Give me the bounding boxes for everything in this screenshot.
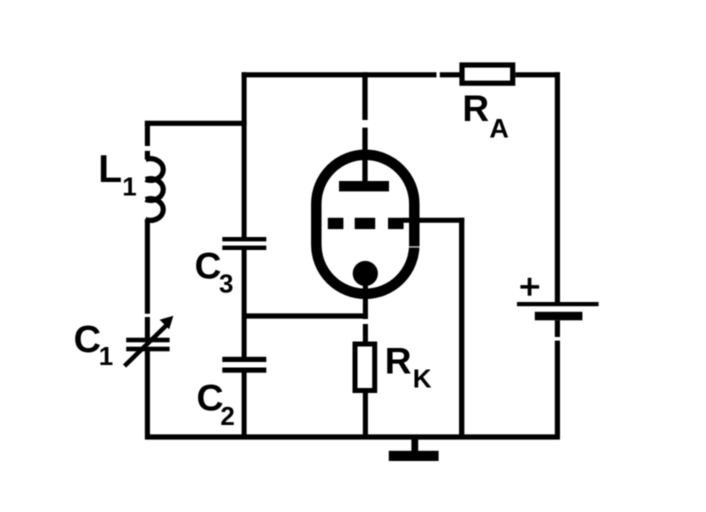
svg-text:1: 1	[99, 341, 113, 371]
wire left horizontal L1-top to middle vertical	[145, 121, 247, 126]
svg-text:A: A	[489, 113, 509, 143]
wire top bus short segment before RA	[440, 72, 461, 77]
tube plate lead upper	[362, 72, 367, 120]
tube cathode lead	[363, 280, 368, 319]
wire battery to bottom (lower piece)	[555, 341, 560, 440]
svg-text:R: R	[462, 88, 489, 129]
label RK	[385, 341, 432, 394]
resistor RK body	[355, 344, 375, 391]
capacitor C1 top plate	[126, 338, 169, 343]
svg-text:1: 1	[122, 172, 136, 202]
wire right vertical to battery	[555, 72, 560, 303]
tube anode plate bar	[339, 181, 389, 191]
wire L1 bottom to C1 (upper piece)	[145, 219, 150, 314]
label C1	[74, 319, 114, 371]
capacitor C2 top plate	[222, 357, 266, 362]
tube U1 envelope	[316, 155, 414, 294]
wire bottom bus (ground net)	[145, 434, 560, 439]
wire C1 to bottom bus	[145, 351, 150, 439]
wire RA to right corner	[515, 72, 560, 77]
ground bar	[389, 451, 439, 461]
wire top bus left segment (node plate/top)	[242, 72, 437, 77]
svg-text:R: R	[385, 341, 412, 382]
wire cathode gap piece to RK	[363, 324, 368, 343]
label C2	[197, 377, 235, 431]
wire grid horizontal	[403, 218, 464, 223]
battery short plate (-)	[535, 312, 583, 321]
wire middle vertical lower (C2 to bottom bus)	[242, 372, 247, 439]
tube grid dash 2	[355, 218, 376, 229]
svg-text:3: 3	[219, 269, 233, 299]
capacitor C2 bottom plate	[222, 368, 266, 373]
tube cathode dot	[353, 261, 378, 286]
wire battery to bottom (upper piece)	[555, 320, 560, 337]
svg-text:C: C	[195, 246, 222, 287]
battery plus sign	[520, 278, 539, 296]
resistor RA body	[462, 65, 513, 83]
wire middle vertical between C3 and C2	[242, 250, 247, 358]
battery long plate (+)	[517, 302, 599, 306]
tube grid dash 3	[388, 218, 404, 229]
svg-text:C: C	[74, 319, 101, 361]
capacitor C1 bottom plate	[126, 347, 169, 352]
wire mid horizontal (C3/C2 node to cathode)	[242, 313, 368, 318]
wire RK to bottom bus	[363, 392, 368, 439]
label RA	[462, 88, 509, 144]
tube envelope notch artifact	[408, 246, 421, 248]
capacitor C1 arrow	[125, 316, 174, 366]
svg-text:L: L	[98, 148, 122, 191]
wire middle vertical upper (top bus to C3)	[242, 72, 247, 238]
capacitor C3 top plate	[222, 237, 266, 241]
svg-text:K: K	[413, 364, 432, 394]
tube plate lead lower	[362, 128, 367, 186]
inductor L1 coil	[146, 151, 164, 220]
wire grid return vertical	[459, 218, 464, 440]
svg-text:2: 2	[220, 401, 234, 431]
capacitor C3 bottom plate	[222, 246, 266, 250]
ground stub	[411, 437, 418, 452]
wire stub above C1	[145, 317, 150, 339]
label L1	[98, 148, 136, 202]
label C3	[195, 246, 234, 299]
tube grid dash 1	[328, 218, 344, 229]
wire L1 upper lead	[145, 121, 150, 146]
